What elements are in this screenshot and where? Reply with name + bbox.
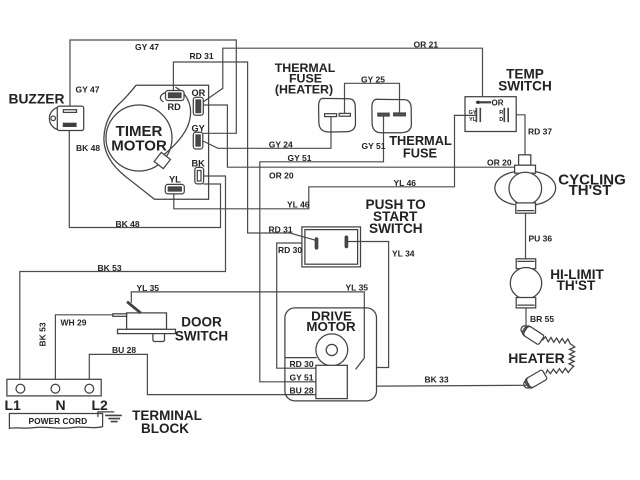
svg-text:BK 53: BK 53	[98, 263, 122, 273]
svg-text:BUZZER: BUZZER	[9, 92, 65, 107]
cycling thermostat body circle	[509, 172, 542, 205]
svg-text:POWER CORD: POWER CORD	[29, 416, 88, 426]
drive motor re-draw wires inside	[356, 308, 364, 369]
door switch body	[127, 313, 167, 329]
terminal circle N	[51, 384, 60, 393]
wire PU36 cycling to hi-limit	[525, 213, 527, 259]
svg-text:OR 20: OR 20	[269, 171, 294, 181]
wire RD37 temp switch to cycling thermostat	[509, 115, 526, 155]
thermal fuse 1 (heater) body	[319, 98, 356, 132]
timer contact YL	[165, 184, 184, 194]
wire temp switch left contact stub	[455, 114, 477, 116]
svg-text:SWITCH: SWITCH	[369, 221, 423, 236]
svg-text:YL 34: YL 34	[392, 249, 415, 259]
svg-text:YL 46: YL 46	[394, 178, 417, 188]
timer contact OR	[193, 97, 203, 115]
svg-text:GY 51: GY 51	[290, 373, 314, 383]
wire RD30 push-to-start to drive motor connector	[277, 243, 316, 368]
svg-text:GY: GY	[469, 110, 477, 116]
svg-text:L2: L2	[92, 397, 109, 413]
temp switch left contact bars	[476, 109, 480, 122]
svg-text:MOTOR: MOTOR	[306, 319, 356, 334]
drive motor row lines inside	[285, 358, 316, 395]
temp switch right contact bars	[504, 109, 508, 122]
cycling thermostat top small tab	[519, 155, 531, 165]
svg-text:BK 48: BK 48	[116, 219, 140, 229]
wire motor connector right stub	[347, 371, 358, 373]
svg-text:YL 35: YL 35	[346, 283, 369, 293]
wire YL35 door switch to drive motor	[131, 292, 364, 369]
wire YL46 timer YL contact to temp switch left contact	[174, 115, 455, 208]
hi-limit bottom tab	[516, 298, 536, 308]
svg-text:RD 31: RD 31	[190, 51, 214, 61]
wire OR21 timer OR contact to temp switch	[201, 48, 483, 103]
svg-text:N: N	[56, 397, 66, 413]
drive motor pulley	[316, 334, 348, 366]
svg-text:GY 51: GY 51	[362, 141, 386, 151]
wire BK33 motor connector to heater plug	[347, 385, 526, 386]
svg-text:OR 21: OR 21	[414, 39, 439, 49]
svg-text:D: D	[499, 117, 503, 123]
svg-text:TH'ST: TH'ST	[569, 182, 612, 199]
wire GY25 fuse1 to fuse2	[345, 83, 400, 113]
svg-text:YL 46: YL 46	[287, 200, 310, 210]
svg-text:BU 28: BU 28	[290, 386, 314, 396]
fuse2 terminal bars	[378, 113, 389, 116]
push-to-start left pin	[315, 238, 317, 249]
wire YL34 segment inside switch box	[348, 241, 361, 243]
timer contact BK	[195, 167, 204, 184]
svg-text:BK 48: BK 48	[76, 143, 100, 153]
timer motor circle	[106, 105, 172, 171]
terminal circle L1	[16, 384, 25, 393]
svg-text:RD 31: RD 31	[269, 224, 293, 234]
ground wire	[98, 412, 114, 416]
svg-text:HEATER: HEATER	[508, 350, 565, 366]
ground symbol bars	[106, 415, 121, 421]
svg-text:MOTOR: MOTOR	[111, 138, 167, 155]
svg-text:GY 25: GY 25	[361, 74, 385, 84]
svg-text:FUSE: FUSE	[403, 145, 438, 160]
door switch base plate	[118, 329, 176, 333]
drive motor connector block	[316, 365, 347, 398]
timer cam follower square	[154, 152, 170, 168]
svg-text:BK: BK	[192, 159, 206, 169]
svg-text:(HEATER): (HEATER)	[275, 82, 333, 96]
svg-text:BR 55: BR 55	[530, 314, 554, 324]
svg-text:BU 28: BU 28	[112, 345, 136, 355]
timer contact GY	[193, 132, 203, 149]
svg-text:WH 29: WH 29	[61, 317, 87, 327]
svg-text:R: R	[499, 110, 503, 116]
thermal fuse 2 body	[372, 99, 412, 133]
temp switch box	[465, 97, 516, 132]
cycling thermostat left ear	[495, 172, 515, 205]
wire RD31 segment inside switch box	[302, 236, 316, 240]
door switch left notch	[113, 314, 127, 317]
fuse1 terminal bars	[325, 114, 337, 117]
svg-text:BK 53: BK 53	[38, 322, 48, 346]
wire GY47 buzzer-top to timer GY contact	[70, 40, 236, 133]
svg-text:OR 20: OR 20	[487, 157, 512, 167]
svg-text:RD: RD	[168, 102, 182, 112]
svg-text:GY: GY	[192, 123, 205, 133]
svg-text:GY 51: GY 51	[288, 153, 312, 163]
svg-text:L1: L1	[5, 397, 22, 413]
svg-text:YL 35: YL 35	[137, 283, 160, 293]
wire BR55 hi-limit to heater plug	[525, 308, 527, 329]
wire GY51 fuse2 to drive motor connector	[260, 116, 384, 382]
push-to-start switch outer box	[302, 227, 361, 267]
drive motor outline	[285, 308, 377, 401]
svg-text:TH'ST: TH'ST	[557, 278, 596, 293]
svg-text:SWITCH: SWITCH	[498, 79, 552, 94]
svg-text:GY 47: GY 47	[135, 42, 159, 52]
svg-text:OR: OR	[192, 88, 206, 98]
svg-text:GY 24: GY 24	[269, 139, 293, 149]
door switch bottom tab	[153, 334, 165, 342]
svg-text:GY 47: GY 47	[76, 84, 100, 94]
timer cam curve	[164, 88, 191, 156]
svg-text:BK 33: BK 33	[425, 374, 449, 384]
wire BK48 buzzer-bottom to timer BK contact	[69, 131, 220, 228]
cycling thermostat bottom tab	[516, 203, 536, 213]
wire BK53 timer BK contact to terminal L1	[20, 176, 226, 385]
svg-text:YL: YL	[169, 174, 181, 184]
heater element zigzag	[543, 337, 575, 374]
terminal block	[7, 379, 101, 396]
svg-text:RD 30: RD 30	[290, 359, 314, 369]
push-to-start switch inner box	[305, 230, 358, 265]
timer contact RD	[166, 91, 185, 101]
svg-text:OR: OR	[492, 99, 504, 108]
svg-text:SWITCH: SWITCH	[175, 328, 228, 343]
svg-text:YL: YL	[469, 117, 477, 123]
cycling thermostat top wide tab	[515, 165, 536, 173]
cycling thermostat right ear	[536, 172, 556, 205]
temp switch OR contact bar	[477, 101, 490, 103]
wire RD31 timer RD contact to push-to-start left pin	[173, 62, 316, 241]
svg-text:PU 36: PU 36	[529, 234, 553, 244]
power cord box	[9, 414, 102, 429]
timer RD contact hook	[160, 93, 166, 102]
wire motor row separator top	[286, 357, 316, 359]
heater top plug	[519, 323, 545, 345]
wire OR20 timer OR contact to cycling thermostat	[204, 105, 519, 167]
wire GY24 timer GY contact to thermal fuse 1	[202, 116, 331, 148]
hi-limit body circle	[510, 268, 541, 299]
heater bottom plug	[522, 369, 548, 390]
terminal circle L2	[85, 384, 94, 393]
door switch lever	[128, 303, 140, 313]
wire YL34 push-to-start right pin to drive motor	[348, 242, 389, 368]
wire WH29 terminal N to door switch	[55, 315, 126, 385]
push-to-start right pin	[345, 236, 347, 248]
timer enclosure outline	[104, 85, 209, 199]
hi-limit top tab	[516, 259, 536, 269]
svg-text:DOOR: DOOR	[181, 314, 222, 329]
svg-text:RD 37: RD 37	[528, 126, 552, 136]
wire BU28 terminal L2 to drive motor connector	[89, 354, 316, 394]
svg-text:RD 30: RD 30	[278, 245, 302, 255]
buzzer	[49, 106, 83, 130]
svg-text:BLOCK: BLOCK	[141, 421, 189, 436]
